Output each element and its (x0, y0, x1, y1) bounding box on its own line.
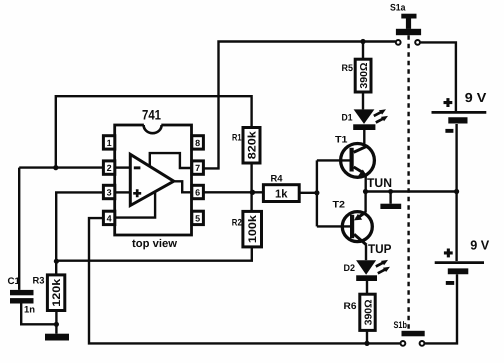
wire: R1 bottom to R2 top (250, 163, 252, 211)
svg-text:390Ω: 390Ω (359, 63, 370, 89)
label 741 (142, 108, 161, 123)
transistor T2 (TUP, PNP) (317, 192, 372, 245)
wire: emitter rail to center tap (366, 190, 457, 192)
ground: center tap ground (380, 189, 401, 209)
junction: output/R1/R2 node (250, 190, 255, 195)
svg-text:C1: C1 (8, 276, 21, 287)
resistor R1 820k (243, 128, 260, 164)
pin 1 (103, 136, 114, 149)
junction: R2/R3 node (54, 259, 59, 264)
pin 6 (192, 185, 204, 198)
svg-text:390Ω: 390Ω (363, 299, 374, 325)
resistor R2 100k (243, 211, 262, 247)
switch S1b (401, 331, 425, 346)
svg-text:7: 7 (195, 163, 200, 173)
wire: pin 2 (19, 166, 103, 168)
junction: base node (314, 190, 319, 195)
label TUN (367, 176, 392, 190)
label S1a (390, 3, 406, 14)
svg-text:top view: top view (132, 238, 177, 250)
op-amp triangle (130, 154, 174, 205)
wire: pin 3 to R3 (56, 192, 103, 275)
pin 4 (103, 211, 114, 224)
transistor T1 (TUN, NPN) (317, 130, 375, 192)
pin 5 (192, 211, 204, 224)
LED D2 (356, 245, 390, 281)
label R4 (271, 174, 284, 185)
label R2 (232, 217, 242, 228)
junction: R6 to rail (364, 341, 369, 346)
wire: pin 6 internal (174, 181, 192, 192)
label T2 (333, 200, 346, 211)
svg-text:741: 741 (142, 108, 161, 123)
svg-text:3: 3 (107, 188, 112, 198)
wire: bottom ground rail to pin 4 (89, 218, 400, 343)
label 1n (24, 305, 35, 316)
wire: C1 top (18, 168, 20, 290)
svg-text:4: 4 (107, 213, 112, 223)
resistor R4 1k (263, 185, 317, 202)
wire: pin 3 stub (115, 191, 130, 193)
label D2 (344, 263, 356, 274)
label top view (132, 238, 177, 250)
svg-text:TUP: TUP (368, 242, 392, 256)
svg-text:S1a: S1a (390, 3, 406, 14)
label R1 (232, 133, 242, 144)
svg-text:R3: R3 (33, 276, 45, 287)
LED D1 (353, 109, 388, 130)
svg-text:T2: T2 (333, 200, 346, 211)
pin 8 (192, 136, 204, 149)
label R3 (33, 276, 45, 287)
wire: pin 2 stub (115, 166, 130, 168)
wire: R2 bottom to pin 3 node (57, 247, 252, 261)
svg-text:D2: D2 (344, 263, 356, 274)
wire: S1a to battery BT1 (421, 42, 456, 111)
svg-text:9 V: 9 V (465, 90, 487, 105)
junction: R5 to rail (360, 39, 365, 44)
resistor R5 390ohm (355, 42, 371, 93)
label TUP (368, 242, 392, 256)
label S1b (394, 320, 408, 331)
battery BT2 9V (435, 192, 490, 285)
svg-text:2: 2 (107, 163, 112, 173)
label R6 (344, 301, 357, 312)
wire: pin 4 internal (115, 192, 155, 217)
capacitor C1 1n (10, 290, 54, 324)
pin 2 (103, 161, 114, 174)
svg-text:1n: 1n (24, 305, 35, 316)
wire: battery BT2 to S1b (425, 274, 457, 343)
wire: pin 7 internal (150, 153, 192, 168)
label R5 (342, 63, 354, 74)
svg-text:6: 6 (195, 188, 200, 198)
svg-text:5: 5 (195, 213, 200, 223)
svg-text:820k: 820k (246, 130, 258, 159)
label D1 (342, 113, 354, 124)
svg-text:1k: 1k (275, 189, 288, 201)
resistor R3 120k (47, 275, 64, 334)
junction: pin 2 node (53, 165, 58, 170)
svg-text:R6: R6 (344, 301, 357, 312)
svg-text:9 V: 9 V (470, 238, 489, 253)
resistor R6 390ohm (360, 281, 375, 344)
label T1 (335, 135, 348, 146)
wire: pin 7 to positive rail top (204, 42, 396, 169)
svg-text:1: 1 (107, 138, 112, 148)
mechanical link S1a-S1b dashed (407, 35, 409, 330)
wire: battery BT1 to center tap node (455, 124, 457, 192)
wire: base vertical T1/T2 (316, 160, 318, 226)
svg-text:T1: T1 (335, 135, 348, 146)
pin 7 (192, 161, 204, 174)
svg-text:S1b: S1b (394, 320, 408, 331)
junction: emitters node (363, 189, 368, 194)
node: battery center tap (454, 189, 459, 194)
svg-text:TUN: TUN (367, 176, 392, 190)
ground: under R3 (45, 334, 69, 341)
op-amp U1 741 body (115, 122, 192, 235)
svg-text:R1: R1 (232, 133, 242, 144)
plus input symbol (133, 189, 141, 197)
label C1 (8, 276, 21, 287)
svg-text:R2: R2 (232, 217, 242, 228)
svg-text:R4: R4 (271, 174, 284, 185)
svg-text:100k: 100k (247, 214, 259, 243)
junction: C1/R3 bottom node (54, 322, 59, 327)
switch S1a (396, 14, 421, 45)
pin 3 (103, 185, 114, 198)
battery BT1 9V (432, 90, 487, 133)
wire: R1 top to pin 2 node (56, 96, 252, 166)
svg-text:120k: 120k (51, 278, 63, 307)
wire: R5 to D1 (362, 92, 364, 109)
minus input symbol (134, 166, 141, 169)
wire: output pin 6 to R4 (204, 191, 264, 193)
svg-text:R5: R5 (342, 63, 354, 74)
svg-text:8: 8 (195, 138, 200, 148)
svg-text:D1: D1 (342, 113, 354, 124)
